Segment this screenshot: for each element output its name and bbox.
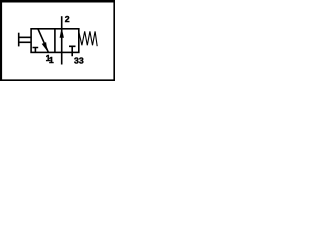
blocked port 1 tee (left box) xyxy=(33,48,39,53)
svg-text:2: 2 xyxy=(65,14,70,24)
pushbutton actuator plate xyxy=(18,33,20,47)
valve position divider xyxy=(54,29,56,53)
arrowhead down-right xyxy=(42,42,48,51)
pushbutton stem bottom rail xyxy=(18,41,31,43)
svg-text:1: 1 xyxy=(49,55,54,65)
return spring xyxy=(79,31,97,46)
blocked port 3 tee (right box) xyxy=(69,46,76,56)
svg-text:3: 3 xyxy=(79,56,84,66)
valve V1 body (two position boxes) xyxy=(31,29,79,53)
flow path diagonal 2 to 3 (left box) xyxy=(38,29,48,52)
border frame xyxy=(0,0,115,3)
arrowhead up xyxy=(60,31,64,37)
port 1 connection stub xyxy=(61,52,63,64)
port 2 connection line xyxy=(61,16,63,29)
flow path arrow 1 to 2 (right box) xyxy=(61,29,63,53)
pushbutton stem top rail xyxy=(18,36,31,38)
